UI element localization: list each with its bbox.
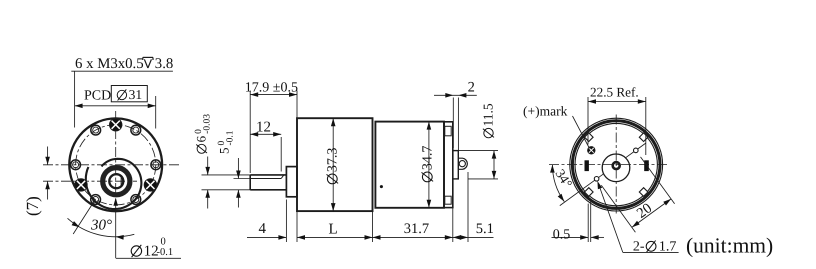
gearbox body [297,118,373,211]
svg-text:L: L [329,222,338,238]
terminal axis line upper-right [626,143,646,158]
dim dia 37.3 [332,118,334,211]
30 deg radial line [73,199,95,234]
motor end cap ring [444,122,453,208]
svg-text:5: 5 [217,148,232,155]
cap crimp tab bottom [445,196,451,204]
rear view motor cap circle [572,121,660,209]
assembly screw at 330 deg [144,179,156,191]
dim 17.9 +-0.5 [249,91,251,174]
dim L [297,236,373,238]
dim dia 34.7 [428,122,430,208]
dim dia 11.5 [458,150,498,152]
svg-text:11.5: 11.5 [481,103,496,126]
svg-text:0.5: 0.5 [553,227,571,242]
svg-text:3.8: 3.8 [155,56,174,72]
rear cap inner rim circle [575,123,657,205]
PCD bolt circle (dash-dot) [76,125,156,205]
cap crimp tab top [445,126,451,136]
shaft end [613,162,620,169]
svg-text:-0.03: -0.03 [203,114,213,134]
terminal axis line lower-left [560,174,604,206]
svg-text:4: 4 [259,221,267,237]
dim 5.1 [453,236,494,238]
svg-text:-0.1: -0.1 [157,247,174,258]
svg-text:17.9 ±0.5: 17.9 ±0.5 [245,80,298,95]
svg-text:(unit:mm): (unit:mm) [686,234,773,258]
(7) offset dimension [47,147,49,165]
(+)mark leader [573,116,590,149]
svg-text:PCD: PCD [84,89,111,104]
svg-text:12: 12 [256,119,271,135]
dim 12 flat length [280,137,282,172]
svg-text:2: 2 [468,80,475,96]
M3 hole at 0 deg [151,160,161,170]
dim dia6 -0.03 [202,174,251,176]
rear view outer circle (gearbox dia) [570,118,663,211]
dia 12 leader and vertical line [115,199,117,259]
crimp tabs (diamonds) [639,133,648,142]
dim 0.5 [587,204,589,242]
boss horizontal centerline [43,180,137,182]
svg-text:-0.1: -0.1 [226,130,236,145]
svg-text:37.3: 37.3 [326,148,341,173]
svg-text:5.1: 5.1 [476,221,494,237]
svg-text:30°: 30° [90,218,112,234]
side view: output shaft [250,174,286,176]
terminal (-) [634,148,639,153]
svg-text:(7): (7) [23,196,42,216]
PCD extension lines [74,71,76,127]
30 deg arc [68,218,135,236]
shaft flat edge line [250,178,281,180]
assembly screw at 210 deg [75,179,87,191]
rear vertical centerline [615,115,617,214]
rear horizontal centerline [549,164,669,166]
horizontal centerline [43,164,180,166]
shaft circle D6 [109,174,123,188]
svg-text:6: 6 [194,135,209,142]
svg-text:31.7: 31.7 [404,221,429,237]
M3 hole at 240 deg [91,195,101,205]
dim 20 between terminals [601,185,635,232]
dim 2 cap boss [452,98,454,149]
M3 hole at 180 deg [71,160,81,170]
(+) mark screw [588,147,595,154]
assembly screw at 90 deg [110,119,122,131]
terminal (+) [594,177,599,182]
output boss ring [103,168,130,195]
svg-text:34.7: 34.7 [421,146,436,171]
svg-text:22.5 Ref.: 22.5 Ref. [590,85,639,100]
34 deg arc [552,165,564,202]
svg-text:31: 31 [129,87,143,102]
bottom dimension row [285,200,287,243]
M3 hole at 300 deg [131,195,141,205]
svg-text:6 x M3x0.5: 6 x M3x0.5 [75,56,144,72]
dia 12 text with tolerance [131,246,141,256]
dim 22.5 Ref [587,97,589,145]
vertical centerline [115,111,117,196]
dim 31.7 [373,236,453,238]
svg-text:(+)mark: (+)mark [523,104,568,119]
dim 5 -0.1 flat height [234,178,251,180]
terminal lug [458,158,467,169]
vent dot on motor [380,185,383,188]
side slot right [644,160,649,171]
shaft boss flange [286,167,297,197]
M3 hole at 120 deg [91,125,101,135]
PCD dimension line [75,105,156,107]
bearing boss circle [602,154,630,182]
svg-text:0: 0 [161,237,166,248]
motor body [375,122,444,208]
spiral face rib [86,159,142,209]
end cap boss [453,151,459,179]
dim 4 [247,236,286,238]
shaft flat chord [120,176,122,186]
gearbox front view outer circle [69,118,162,211]
M3 hole at 60 deg [131,125,141,135]
side slot left [585,160,589,171]
